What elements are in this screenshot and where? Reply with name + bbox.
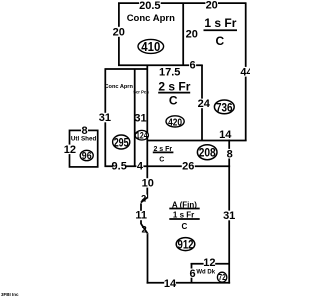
- dimension 4 (strip2 bottom): [136, 161, 143, 170]
- wood deck top edge: [191, 263, 230, 265]
- wire bottom of top boxes / top of 420 box H2: [118, 64, 203, 66]
- wood deck left edge V11: [191, 263, 193, 283]
- svg-text:420: 420: [168, 116, 182, 128]
- svg-text:Scr Pch: Scr Pch: [133, 90, 149, 95]
- svg-text:44: 44: [240, 67, 250, 79]
- dimension 24 (wall V4): [197, 99, 210, 109]
- svg-text:410: 410: [141, 39, 160, 54]
- svg-text:26: 26: [182, 161, 194, 173]
- svg-text:31: 31: [134, 112, 146, 124]
- dimension 20.5 (top of Conc Aprn box): [139, 0, 161, 10]
- dimension 6 (deck left): [189, 269, 196, 278]
- area ellipse 912: [176, 238, 195, 251]
- svg-text:31: 31: [223, 210, 235, 222]
- svg-text:12: 12: [64, 144, 76, 156]
- svg-text:C: C: [169, 94, 178, 108]
- wire wall below 6-ft notch V4: [201, 65, 203, 141]
- wire right edge V3 (44 ft): [245, 3, 247, 141]
- dimension 8 (right wall upper): [226, 149, 233, 159]
- area ellipse 420: [166, 116, 184, 127]
- area ellipse 295: [113, 135, 130, 149]
- svg-text:20: 20: [113, 27, 125, 39]
- dimension 2 (upper jog): [140, 195, 147, 204]
- wire top edge H1: [118, 2, 247, 4]
- svg-text:Utl Shed: Utl Shed: [71, 136, 97, 143]
- dimension 10 (left wall V7): [142, 178, 154, 187]
- svg-text:124: 124: [136, 131, 148, 141]
- dimension 20 (top of 1sFr box): [205, 0, 218, 9]
- dimension 26 (208 box bottom): [182, 161, 195, 170]
- svg-text:C: C: [182, 222, 188, 231]
- svg-text:31: 31: [99, 112, 111, 124]
- area ellipse 410: [138, 39, 164, 53]
- dimension 6 (top notch): [189, 60, 196, 70]
- svg-text:1 s Fr: 1 s Fr: [173, 210, 194, 219]
- svg-text:10: 10: [142, 178, 154, 190]
- svg-text:17.5: 17.5: [159, 67, 180, 79]
- svg-text:2: 2: [141, 194, 146, 205]
- svg-text:4: 4: [137, 161, 144, 173]
- svg-text:14: 14: [219, 129, 232, 141]
- wire bottom-left wall V9: [147, 233, 149, 284]
- svg-text:24: 24: [198, 98, 211, 110]
- svg-text:6: 6: [190, 60, 196, 72]
- svg-text:Conc Aprn: Conc Aprn: [127, 13, 175, 24]
- wire bottom edge H5: [147, 282, 231, 284]
- wire divider between top boxes V2: [182, 3, 184, 66]
- area ellipse 124: [135, 130, 148, 140]
- svg-text:14: 14: [164, 278, 177, 290]
- dimension 2 (lower jog): [141, 225, 148, 234]
- svg-text:2: 2: [142, 225, 147, 236]
- dimension 44 (right edge): [240, 67, 252, 77]
- area ellipse 72: [217, 272, 226, 282]
- dimension 9.5 (strip1 bottom): [113, 161, 126, 170]
- area ellipse 736: [214, 100, 234, 114]
- dimension 20 (left of Conc Aprn box): [113, 27, 126, 37]
- wire left edge of Conc Aprn 410 box V1: [118, 3, 120, 66]
- svg-text:20: 20: [186, 28, 198, 40]
- svg-text:1 s Fr: 1 s Fr: [204, 16, 236, 30]
- dimension 31 (right wall V10): [224, 211, 234, 221]
- wire left edge of Conc Aprn strip V5: [104, 69, 106, 168]
- wire top of porch strips H2b: [105, 68, 149, 70]
- svg-text:12: 12: [203, 257, 215, 269]
- svg-text:Wd Dk: Wd Dk: [196, 270, 215, 276]
- svg-text:2 s Fr: 2 s Fr: [158, 79, 190, 93]
- svg-text:11: 11: [135, 210, 147, 222]
- svg-text:20: 20: [206, 0, 218, 11]
- svg-text:3FBI Inc: 3FBI Inc: [1, 292, 19, 297]
- svg-text:C: C: [215, 34, 224, 48]
- svg-text:208: 208: [199, 146, 216, 160]
- svg-text:96: 96: [82, 151, 92, 162]
- utility shed box: [70, 130, 98, 167]
- dimension 12 (deck top): [204, 258, 216, 267]
- dimension 11 (left wall V8): [137, 211, 146, 220]
- wire main house left wall V7: [146, 65, 148, 199]
- area ellipse 208: [197, 145, 217, 160]
- svg-text:295: 295: [114, 136, 129, 149]
- wire bottom of 208 box / strips H4: [105, 165, 231, 167]
- svg-text:C: C: [159, 156, 164, 163]
- svg-text:8: 8: [227, 148, 233, 160]
- wire divider between strips V6: [134, 69, 136, 168]
- wire mid horizontal H3 (bottom of 420 area): [147, 140, 247, 142]
- dimension 12 (utility shed left): [64, 145, 76, 155]
- svg-text:912: 912: [178, 238, 194, 252]
- wire left wall segment V8 (11 ft): [140, 203, 142, 224]
- svg-text:72: 72: [219, 273, 227, 282]
- svg-text:736: 736: [216, 100, 233, 114]
- svg-text:6: 6: [189, 268, 195, 280]
- dimension 14 (bottom edge): [164, 278, 176, 288]
- dimension 8 (utility shed top): [81, 126, 88, 135]
- area ellipse 96: [80, 150, 93, 160]
- svg-text:9.5: 9.5: [112, 161, 127, 173]
- svg-text:20.5: 20.5: [139, 0, 160, 12]
- wire right wall V10 (8 + 31): [228, 140, 230, 284]
- dimension 31 (left strip V5): [100, 113, 110, 123]
- svg-text:Conc Aprn: Conc Aprn: [105, 84, 134, 90]
